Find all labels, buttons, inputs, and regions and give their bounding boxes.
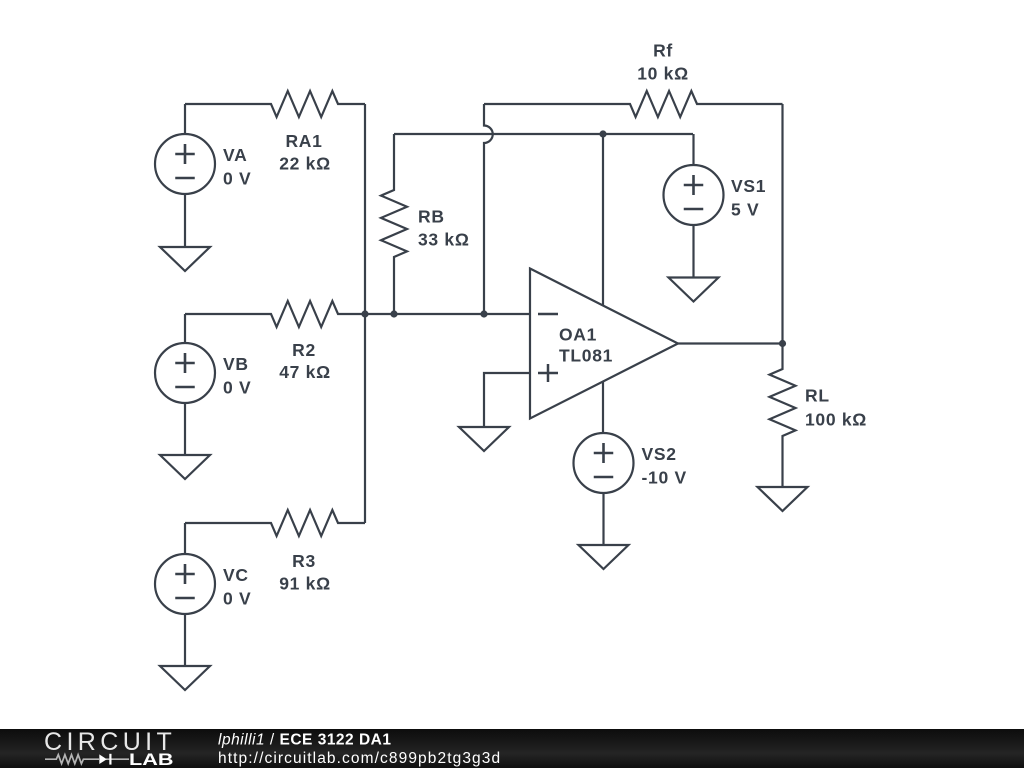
- voltage source VA: [155, 104, 215, 247]
- ground below VB: [160, 455, 210, 479]
- wire vertical bus x=365: [364, 104, 366, 523]
- resistor RB: [381, 134, 407, 314]
- resistor R2: [185, 301, 530, 327]
- resistor Rf: [484, 91, 783, 117]
- CircuitLab logo: [44, 728, 176, 768]
- wire op-amp + input: [484, 373, 530, 427]
- svg-text:LAB: LAB: [129, 750, 174, 768]
- node summing junction at input bus: [361, 310, 368, 317]
- voltage source VS2: [574, 433, 634, 545]
- ground at + input: [459, 427, 509, 451]
- node junction RB bottom: [390, 310, 397, 317]
- svg-text:http://circuitlab.com/c899pb2t: http://circuitlab.com/c899pb2tg3g3d: [218, 750, 501, 767]
- op-amp OA1: [530, 269, 678, 419]
- svg-text:lphilli1 / ECE 3122 DA1: lphilli1 / ECE 3122 DA1: [218, 731, 392, 748]
- ground below VA: [160, 247, 210, 271]
- resistor RL: [770, 344, 796, 488]
- node junction feedback branch: [480, 310, 487, 317]
- voltage source VC: [155, 523, 215, 666]
- ground below VC: [160, 666, 210, 690]
- wire right vertical: [781, 104, 783, 344]
- wire op-amp V-: [602, 382, 604, 434]
- footer title text: [218, 731, 501, 767]
- ground below RL: [758, 487, 808, 511]
- voltage source VS1: [664, 134, 724, 278]
- node junction V+ supply: [599, 130, 606, 137]
- ground below VS1: [669, 278, 719, 302]
- footer bar: [0, 729, 1024, 768]
- wire op-amp output: [678, 342, 783, 344]
- resistor R3: [185, 510, 365, 536]
- ground below VS2: [579, 545, 629, 569]
- wire RB top to VS1: [394, 133, 693, 135]
- node output junction: [779, 340, 786, 347]
- resistor RA1: [185, 91, 365, 117]
- voltage source VB: [155, 314, 215, 455]
- wire hop vertical x=484: [484, 104, 493, 314]
- wire op-amp V+: [602, 134, 604, 306]
